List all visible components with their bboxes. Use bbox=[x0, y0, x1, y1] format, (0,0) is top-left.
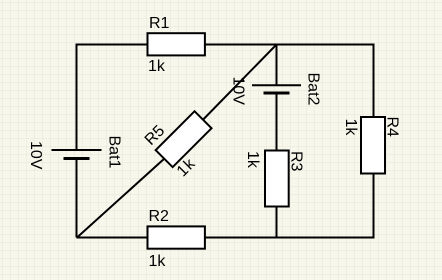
svg-text:1k: 1k bbox=[149, 253, 167, 270]
svg-text:1k: 1k bbox=[244, 151, 261, 169]
svg-text:Bat1: Bat1 bbox=[106, 136, 123, 169]
svg-text:R4: R4 bbox=[384, 117, 401, 138]
svg-text:Bat2: Bat2 bbox=[305, 73, 322, 106]
wire left lower (Bat1 minus plate to node D) bbox=[76, 159, 78, 238]
wire top (node A to node C) bbox=[77, 44, 374, 46]
wire middle upper (node B to Bat2 plus plate) bbox=[276, 45, 278, 86]
battery Bat2 short plate (-) bbox=[264, 92, 290, 95]
svg-text:1k: 1k bbox=[342, 119, 359, 137]
wire middle lower (R3 to node E) bbox=[276, 206, 278, 238]
resistor R3 body bbox=[265, 151, 289, 207]
wire middle (Bat2 minus plate to R3) bbox=[276, 93, 278, 151]
svg-text:R3: R3 bbox=[288, 151, 305, 172]
resistor R5 body (rotated 45deg) bbox=[156, 111, 212, 167]
wire bottom (node D to node F) bbox=[77, 237, 374, 239]
battery Bat1 short plate (-) bbox=[64, 157, 90, 160]
svg-text:R2: R2 bbox=[149, 208, 170, 225]
battery Bat2 long plate (+) bbox=[252, 84, 301, 86]
svg-text:10V: 10V bbox=[27, 141, 44, 170]
svg-text:10V: 10V bbox=[230, 77, 247, 106]
resistor R1 body bbox=[148, 33, 205, 55]
svg-text:R1: R1 bbox=[149, 15, 170, 32]
wire left upper (node A down to Bat1 plus plate) bbox=[76, 44, 78, 151]
wire right (node C to node F) bbox=[373, 44, 375, 239]
wire diagonal (node D via R5 to node B) bbox=[77, 45, 277, 238]
resistor R4 body bbox=[361, 117, 385, 174]
battery Bat1 long plate (+) bbox=[52, 149, 102, 151]
resistor R2 body bbox=[148, 226, 205, 248]
svg-text:1k: 1k bbox=[148, 58, 166, 75]
